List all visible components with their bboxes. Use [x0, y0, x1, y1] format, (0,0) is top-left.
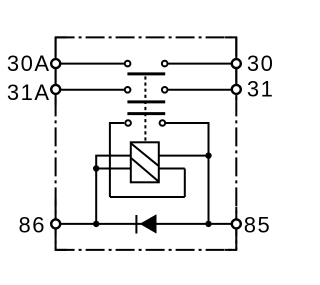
border solid segment bottom-left corner — [56, 199, 67, 250]
contact circle row1 right — [162, 61, 168, 67]
coil winding stripe lower diagonal — [131, 158, 158, 181]
contact circle row1 left — [125, 61, 131, 67]
svg-text:86: 86 — [19, 212, 46, 237]
junction coil lower-left — [93, 165, 99, 171]
relay housing border right — [235, 37, 237, 250]
junction 85 bus — [205, 221, 211, 227]
terminal 86 — [51, 219, 60, 228]
wire inner loop bottom — [110, 196, 185, 198]
wire coil lower-right terminal — [158, 168, 185, 170]
wire terminal 31A to contact row2 left — [60, 89, 125, 91]
wire inner loop right riser — [184, 169, 186, 198]
wire contact row2 right to terminal 31 — [167, 89, 232, 91]
border solid segment top-left corner — [56, 37, 67, 105]
junction 86 bus — [93, 221, 99, 227]
wire coil upper-right terminal to riser — [158, 155, 209, 157]
svg-text:31: 31 — [247, 77, 274, 102]
wire coil upper-left terminal — [96, 156, 132, 224]
border solid segment top-right corner — [225, 37, 236, 100]
wire contact row3 left down to inner loop — [110, 123, 124, 197]
relay coil K1 — [131, 142, 159, 182]
svg-text:30A: 30A — [7, 51, 51, 76]
terminal 30A — [51, 59, 60, 68]
wire coil lower-left terminal — [96, 168, 132, 170]
wire terminal 30A to contact row1 left — [60, 63, 125, 65]
coil winding stripe upper diagonal — [131, 144, 158, 166]
contact circle row3 left — [125, 120, 131, 126]
contact bridge bar row1 — [127, 72, 165, 75]
junction coil upper-right — [205, 152, 211, 158]
wire bottom bus 86 to 85 — [60, 223, 232, 225]
wire contact row1 right to terminal 30 — [167, 63, 232, 65]
svg-text:30: 30 — [247, 51, 274, 76]
diode V1 cathode bar — [135, 215, 137, 234]
contact circle row3 right — [160, 120, 166, 126]
actuator dashed link — [144, 76, 146, 142]
relay housing border bottom — [56, 249, 237, 251]
relay housing border top — [56, 36, 237, 38]
terminal 30 — [232, 59, 241, 68]
contact circle row2 left — [125, 87, 131, 93]
terminal 31 — [232, 85, 241, 94]
terminal 31A — [51, 85, 60, 94]
contact bridge bar row3 — [127, 112, 165, 115]
border solid segment bottom-right corner — [225, 207, 236, 250]
terminal 85 — [232, 219, 241, 228]
svg-text:85: 85 — [244, 213, 271, 238]
svg-text:31A: 31A — [7, 80, 51, 105]
wire contact row3 right to node 85 riser — [165, 123, 209, 224]
contact bridge bar row2 — [127, 100, 165, 103]
diode V1 triangle — [140, 214, 157, 233]
contact circle row2 right — [162, 87, 168, 93]
relay housing border left — [55, 37, 57, 250]
